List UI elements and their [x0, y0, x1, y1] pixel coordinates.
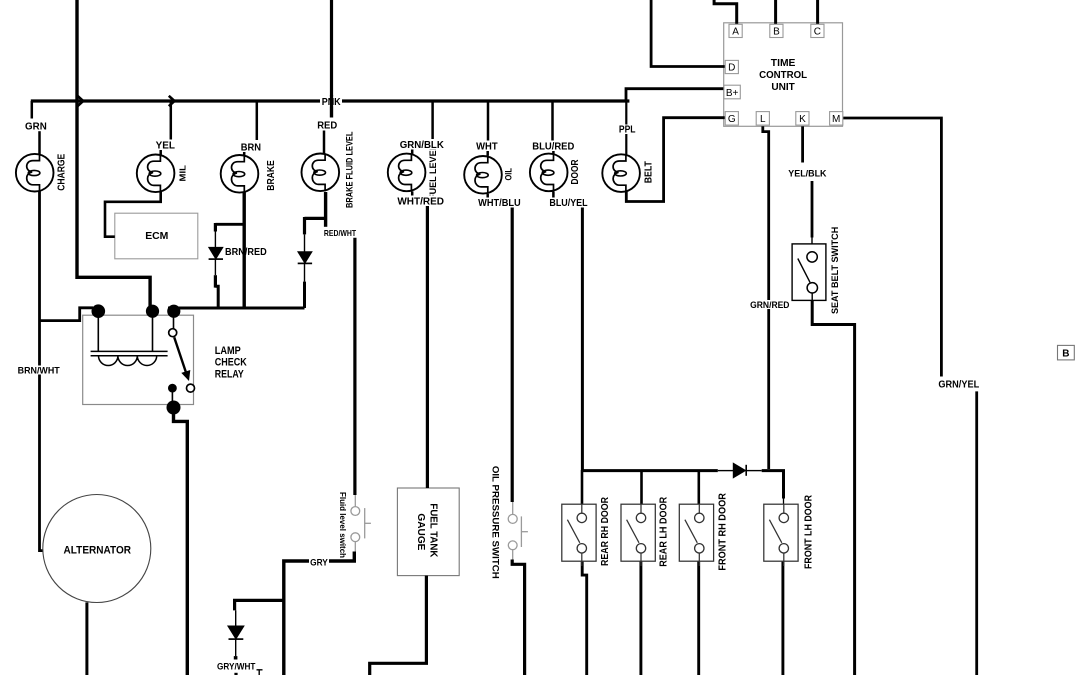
wire top vertical PNK/RED	[330, 0, 333, 118]
junction dot switch top	[167, 305, 180, 318]
svg-text:GRN/BLK: GRN/BLK	[400, 139, 444, 151]
svg-text:L: L	[760, 114, 766, 125]
door switch front RH	[679, 504, 713, 566]
svg-text:BRN/WHT: BRN/WHT	[18, 365, 60, 376]
svg-text:B: B	[1062, 349, 1069, 360]
oil pressure switch	[508, 502, 528, 561]
svg-text:BLU/YEL: BLU/YEL	[549, 198, 587, 209]
junction dot coil left	[92, 304, 106, 318]
door switch rear LH	[621, 504, 655, 566]
wire diode to front LH door	[762, 471, 784, 499]
svg-text:RED: RED	[317, 120, 337, 132]
wire alternator bottom	[85, 602, 88, 675]
wire RED/WHT down to fluid level switch	[353, 238, 356, 495]
svg-text:MIL: MIL	[178, 164, 188, 181]
junction dot relay output	[167, 401, 181, 415]
svg-text:BELT: BELT	[644, 161, 655, 183]
junction dot coil right	[146, 305, 159, 318]
wire WHT/BLU down to oil pressure switch	[511, 207, 514, 503]
wire YEL lamp to ECM	[105, 191, 161, 237]
wire TCU A	[714, 0, 737, 24]
lamp GRN / CHARGE	[16, 154, 54, 192]
pin K	[796, 112, 809, 126]
svg-text:CHARGE: CHARGE	[57, 154, 68, 191]
wire labels (white background)	[17, 97, 981, 672]
wire seat belt switch bottom	[812, 300, 854, 675]
wire TCU K to seat belt switch	[801, 126, 804, 162]
wire WHT lamp top	[487, 101, 490, 142]
wire BELT lamp bottom to G pin	[626, 118, 725, 202]
svg-text:G: G	[728, 114, 736, 125]
svg-text:GRY/WHT: GRY/WHT	[217, 662, 256, 672]
relay coil leads	[97, 311, 99, 351]
wire branch to GRY/WHT diode	[235, 600, 284, 610]
wire bus arrow 1	[78, 96, 84, 106]
wire RED lamp bottom branch	[305, 217, 326, 220]
wire branch to diode BRN/RED	[215, 223, 244, 226]
rotated lamp labels	[57, 131, 842, 579]
svg-text:CONTROL: CONTROL	[759, 70, 807, 81]
wire PPL / B+ corner	[626, 89, 724, 101]
wire over PNK label	[330, 95, 333, 118]
svg-text:RELAY: RELAY	[215, 368, 245, 380]
svg-text:SEAT BELT SWITCH: SEAT BELT SWITCH	[830, 227, 841, 314]
relay coil	[91, 351, 168, 355]
svg-text:M: M	[832, 114, 840, 125]
ECM box	[115, 213, 198, 259]
svg-text:REAR LH DOOR: REAR LH DOOR	[659, 497, 670, 567]
svg-text:GRN: GRN	[25, 121, 47, 133]
wire branch to relay	[40, 308, 94, 321]
svg-text:B+: B+	[726, 88, 739, 99]
wire rear LH door drop	[640, 470, 643, 505]
diode GRY/WHT	[228, 610, 244, 675]
svg-text:ECM: ECM	[145, 230, 168, 242]
wire BRN lamp top	[256, 101, 259, 140]
seat belt switch	[792, 244, 826, 302]
wire GRN/BLK lamp bottom stub	[411, 191, 414, 198]
wire GRY from fluid switch	[284, 552, 355, 675]
diode RED (below brake fluid lamp)	[298, 217, 312, 308]
wire BRN lamp bottom to relay bus	[242, 192, 245, 307]
lamp check relay label	[215, 345, 247, 381]
wire rear RH door drop	[581, 470, 584, 505]
wire rear LH door bottom	[639, 561, 642, 675]
pin G	[725, 112, 738, 126]
svg-text:PPL: PPL	[619, 125, 636, 136]
svg-text:YEL/BLK: YEL/BLK	[788, 168, 826, 179]
pin L	[756, 112, 769, 126]
wire TCU B	[774, 0, 777, 24]
svg-text:BRN: BRN	[241, 141, 261, 153]
pin C	[811, 24, 824, 37]
svg-text:FUEL LEVEL: FUEL LEVEL	[428, 145, 438, 200]
wire front RH door bottom	[697, 561, 700, 675]
wire WHT/RED down to fuel gauge	[426, 206, 429, 489]
svg-text:FRONT RH DOOR: FRONT RH DOOR	[718, 493, 729, 571]
lamp PPL / BELT	[602, 154, 640, 192]
svg-text:ALTERNATOR: ALTERNATOR	[64, 545, 132, 557]
pin A	[729, 24, 742, 37]
wire BLU/YEL down to door bus	[581, 207, 584, 471]
wire PNK bus	[31, 99, 630, 102]
svg-text:GRN/RED: GRN/RED	[750, 300, 789, 311]
wire TCU L to GRN/RED	[763, 126, 769, 469]
wire YEL lamp top	[170, 101, 173, 141]
svg-text:UNIT: UNIT	[771, 82, 795, 93]
wire bus arrow 2	[169, 96, 175, 106]
lamp YEL / MIL	[137, 154, 175, 192]
wire RED lamp top	[323, 131, 326, 156]
svg-text:WHT/RED: WHT/RED	[397, 196, 444, 208]
lamp WHT / OIL	[464, 156, 502, 194]
pin B+	[724, 85, 740, 99]
wire relay top bus to RED diode	[168, 307, 305, 310]
wire front LH door bottom	[781, 561, 784, 675]
svg-text:OIL PRESSURE SWITCH: OIL PRESSURE SWITCH	[490, 466, 501, 579]
diode door	[733, 463, 762, 478]
svg-text:K: K	[799, 114, 806, 125]
wire GRN lamp top	[31, 101, 34, 119]
wire front RH door drop	[697, 470, 700, 505]
connector B	[1058, 345, 1075, 360]
pin D	[725, 60, 738, 73]
fuel tank gauge box	[397, 488, 459, 576]
svg-text:FRONT LH DOOR: FRONT LH DOOR	[804, 495, 815, 569]
wire oil pressure switch bottom	[512, 560, 524, 675]
svg-text:D: D	[728, 63, 735, 74]
fluid level switch	[351, 495, 371, 553]
wire WHT lamp bottom stub	[486, 194, 489, 199]
svg-text:BRAKE: BRAKE	[266, 160, 277, 191]
wire GRN/BLK lamp top	[431, 101, 434, 141]
wire BLU/RED lamp top	[551, 101, 554, 142]
svg-text:B: B	[773, 27, 780, 38]
svg-text:BRAKE FLUID LEVEL: BRAKE FLUID LEVEL	[345, 131, 355, 208]
time control unit box	[724, 23, 843, 127]
lamp RED / BRAKE FLUID LEVEL	[302, 153, 340, 191]
svg-text:CHECK: CHECK	[215, 357, 247, 369]
svg-text:RED/WHT: RED/WHT	[324, 228, 357, 238]
relay switch	[173, 311, 175, 329]
svg-text:BRN/RED: BRN/RED	[225, 246, 267, 258]
svg-text:Fluid level switch: Fluid level switch	[338, 492, 348, 558]
pin B	[770, 24, 783, 37]
svg-text:REAR RH DOOR: REAR RH DOOR	[600, 497, 611, 566]
diode BRN/RED	[209, 247, 223, 307]
pin M	[830, 112, 843, 126]
svg-text:WHT: WHT	[476, 141, 498, 153]
lamp BRN / BRAKE	[221, 155, 259, 193]
svg-text:OIL: OIL	[504, 168, 514, 181]
svg-text:WHT/BLU: WHT/BLU	[478, 198, 521, 209]
svg-text:LAMP: LAMP	[215, 345, 241, 357]
relay internals	[91, 304, 195, 414]
svg-text:A: A	[732, 27, 739, 38]
svg-text:FUEL TANK: FUEL TANK	[427, 503, 438, 558]
svg-text:GRY: GRY	[310, 557, 328, 567]
wire fuel gauge bottom	[370, 576, 427, 675]
lamp check relay box	[83, 315, 194, 404]
door switch rear RH	[562, 504, 596, 566]
lamp GRN/BLK / FUEL LEVEL	[388, 154, 426, 192]
wire BLU/RED lamp bottom stub	[552, 192, 555, 199]
svg-text:TIME: TIME	[771, 58, 796, 69]
door switch front LH	[764, 504, 798, 566]
wire charge lamp down / BRN-WHT	[40, 191, 45, 551]
terminal symbol bottom	[256, 670, 263, 675]
svg-text:C: C	[814, 27, 821, 38]
wire rear RH door bottom	[582, 561, 587, 675]
svg-text:GRN/YEL: GRN/YEL	[938, 379, 979, 390]
svg-text:BLU/RED: BLU/RED	[532, 141, 574, 153]
wire door bus	[582, 469, 717, 472]
svg-text:YEL: YEL	[156, 139, 176, 151]
alternator	[43, 495, 151, 603]
wire TCU C	[816, 0, 819, 24]
wire relay bottom out	[174, 408, 188, 675]
wire top vertical to relay	[77, 0, 150, 306]
wire TCU D	[651, 0, 725, 67]
wire TCU M to GRN/YEL	[843, 118, 941, 377]
svg-text:DOOR: DOOR	[570, 159, 581, 185]
svg-text:GAUGE: GAUGE	[415, 513, 426, 550]
lamp BLU/RED / DOOR	[530, 154, 568, 192]
